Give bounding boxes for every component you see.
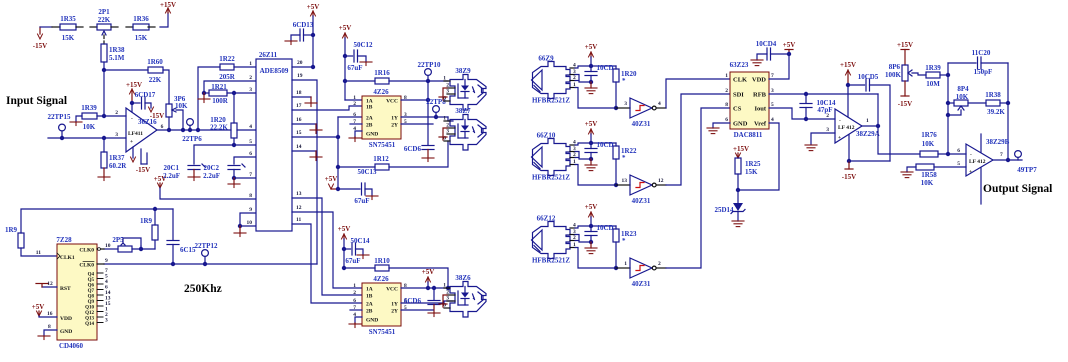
IC U2 4Z26 SN75451 (top)	[362, 88, 401, 149]
svg-text:Iout: Iout	[754, 106, 766, 113]
svg-text:3: 3	[115, 132, 118, 138]
svg-text:+5V: +5V	[783, 41, 796, 49]
resistor 1R23 (pullup)	[613, 226, 637, 268]
svg-text:+5V: +5V	[154, 175, 167, 183]
svg-text:1R25: 1R25	[745, 160, 761, 168]
fiber receiver 66Z10 HFBR2521Z	[532, 132, 577, 182]
svg-text:1R9: 1R9	[140, 217, 153, 225]
svg-text:67uF: 67uF	[345, 257, 360, 265]
svg-text:4: 4	[658, 101, 661, 107]
zener diode 25D14	[714, 190, 745, 221]
svg-text:1B: 1B	[366, 294, 373, 300]
power +5V (pin 20 rail)	[307, 3, 320, 67]
wire pin3 to ground	[811, 133, 835, 144]
svg-text:-15V: -15V	[898, 100, 912, 108]
capacitor 10CD4	[756, 40, 789, 60]
svg-text:1R9: 1R9	[5, 226, 18, 234]
capacitor 6C15	[167, 209, 196, 264]
test point 22TP15	[48, 113, 71, 138]
wire pin2 row	[97, 115, 126, 117]
capacitor 20C2 2.2uF	[203, 164, 245, 180]
wire output to 1R76	[878, 126, 920, 154]
wire	[940, 74, 948, 76]
svg-text:205R: 205R	[219, 73, 236, 81]
svg-text:1: 1	[249, 61, 252, 67]
svg-text:19: 19	[297, 73, 303, 79]
wire pin4 row	[237, 129, 256, 131]
svg-text:Q8: Q8	[88, 295, 95, 300]
junction	[343, 54, 347, 58]
test point 22TP8	[426, 98, 446, 117]
potentiometer 8P4 10K	[948, 85, 969, 115]
svg-text:67uF: 67uF	[347, 64, 362, 72]
svg-text:CD4060: CD4060	[59, 342, 84, 350]
svg-text:2: 2	[115, 110, 118, 116]
svg-text:5.1M: 5.1M	[109, 54, 125, 62]
svg-text:CLK0: CLK0	[79, 263, 94, 269]
svg-text:10M: 10M	[926, 80, 940, 88]
svg-text:10K: 10K	[83, 123, 96, 131]
test point 22TP12	[195, 242, 218, 264]
svg-text:3: 3	[446, 296, 449, 302]
svg-text:1R38: 1R38	[985, 91, 1001, 99]
svg-text:CLK: CLK	[733, 77, 747, 84]
wire VCC row	[401, 99, 428, 101]
power +5V (50C13 node)	[325, 175, 338, 189]
wire VCC riser to 6CD6	[427, 81, 429, 145]
svg-text:11: 11	[296, 217, 301, 223]
svg-text:8: 8	[725, 102, 728, 108]
inverter 40Z31 (middle)	[616, 175, 666, 205]
svg-text:2: 2	[658, 261, 661, 267]
pins 1/5 stubs	[141, 149, 147, 164]
svg-text:LF 412: LF 412	[838, 125, 855, 131]
junction	[342, 247, 346, 251]
resistor 1R16	[374, 69, 390, 84]
svg-text:11C20: 11C20	[972, 49, 991, 57]
wire pin4	[848, 135, 850, 161]
wire pins 2,3 to cap node	[575, 75, 591, 83]
capacitor 6CD17	[132, 91, 156, 109]
wire feedback riser B	[1007, 63, 1009, 160]
svg-text:SN75451: SN75451	[369, 141, 396, 149]
svg-text:50C12: 50C12	[353, 41, 373, 49]
wire	[938, 153, 966, 155]
svg-text:+15V: +15V	[160, 1, 176, 9]
ground (66Z12 cap)	[585, 242, 597, 254]
resistor 1R37 60.2R	[101, 152, 127, 170]
svg-text:RFB: RFB	[753, 92, 767, 99]
test point 49TP7	[1015, 151, 1038, 174]
svg-text:+5V: +5V	[338, 225, 351, 233]
junction	[589, 64, 593, 68]
svg-text:12: 12	[658, 178, 664, 184]
svg-text:Q4: Q4	[88, 273, 95, 278]
power +5V (DAC VDD)	[783, 41, 796, 54]
svg-text:13: 13	[622, 178, 628, 184]
optocoupler transmitter 38Z6	[443, 274, 486, 317]
svg-text:15K: 15K	[745, 168, 758, 176]
svg-text:HFBR2521Z: HFBR2521Z	[532, 174, 570, 182]
wire pin8 stub	[847, 85, 849, 117]
pin 9 stub	[97, 258, 108, 264]
svg-text:1: 1	[443, 116, 446, 122]
svg-text:CLK0: CLK0	[79, 248, 94, 254]
svg-text:40Z31: 40Z31	[632, 197, 651, 205]
svg-text:4: 4	[249, 124, 252, 130]
ground (50C14)	[357, 255, 369, 259]
svg-text:1: 1	[866, 118, 869, 124]
power +15V (op-amp A)	[840, 61, 856, 85]
junction	[946, 113, 950, 117]
svg-text:2: 2	[249, 75, 252, 81]
svg-text:Q6: Q6	[88, 284, 95, 289]
pin numbers U5	[725, 73, 774, 123]
pin 4 stub and -15V	[131, 147, 151, 174]
op-amp U1 36Z16 LF411	[115, 108, 163, 152]
wire pins 2,3 to cap node	[575, 235, 591, 243]
test point 22TP10	[418, 61, 441, 81]
svg-text:3: 3	[826, 127, 829, 133]
svg-text:RST: RST	[60, 286, 71, 292]
wire (1R39 to ground)	[76, 116, 82, 122]
op-amp U6 38Z29A LF412	[826, 109, 879, 143]
resistor 1R22 205R	[219, 55, 236, 81]
wire pin18 stub	[292, 97, 311, 103]
junction	[446, 286, 450, 290]
svg-text:1: 1	[624, 261, 627, 267]
svg-text:22TP10: 22TP10	[418, 61, 441, 69]
power -15V (op-amp A)	[842, 161, 856, 181]
optocoupler transmitter 38Z9	[443, 67, 486, 110]
junction	[139, 247, 143, 251]
svg-text:SN75451: SN75451	[369, 328, 396, 336]
junction	[196, 128, 200, 132]
resistor 1R22 (pullup)	[613, 143, 637, 185]
svg-text:150pF: 150pF	[974, 68, 993, 76]
resistor 1R38 5.1M	[101, 44, 125, 62]
svg-text:6: 6	[249, 151, 252, 157]
wire output B	[993, 159, 1022, 161]
svg-text:+15V: +15V	[733, 145, 749, 153]
svg-text:3: 3	[105, 318, 108, 324]
junction	[1006, 158, 1010, 162]
svg-text:9: 9	[105, 258, 108, 264]
svg-text:10CD4: 10CD4	[756, 40, 777, 48]
svg-text:VDD: VDD	[752, 77, 766, 84]
junction	[946, 152, 950, 156]
svg-text:1R10: 1R10	[374, 257, 390, 265]
svg-text:Q10: Q10	[85, 306, 94, 311]
wire 2B stub	[350, 123, 362, 125]
junction	[804, 92, 808, 96]
wire	[103, 138, 105, 152]
capacitor 11C20 150pF	[948, 49, 1008, 76]
power +15V (ref)	[733, 145, 749, 158]
svg-text:8: 8	[48, 324, 51, 330]
svg-text:10CD: 10CD	[596, 64, 613, 72]
wire VDD riser	[769, 54, 789, 79]
IC U3 7Z28 CD4060	[56, 236, 97, 350]
svg-text:6: 6	[725, 117, 728, 123]
wire divider riser	[233, 93, 235, 123]
junction	[946, 73, 950, 77]
junction	[787, 52, 791, 56]
svg-text:6CD6: 6CD6	[404, 145, 422, 153]
wire	[389, 80, 448, 82]
svg-text:6: 6	[353, 298, 356, 304]
svg-text:Q13: Q13	[85, 317, 94, 322]
ground (6CD6 bottom)	[428, 313, 440, 317]
svg-text:60.2R: 60.2R	[109, 162, 127, 170]
svg-text:26Z11: 26Z11	[259, 51, 278, 59]
junction	[343, 79, 347, 83]
svg-text:+: +	[969, 169, 972, 175]
junction	[311, 33, 315, 37]
ground (10CD4)	[751, 60, 763, 66]
wire rail	[575, 66, 616, 68]
ground (6CD6)	[422, 158, 434, 162]
svg-text:HFBR2521Z: HFBR2521Z	[532, 97, 570, 105]
resistor 1R39 10M	[925, 64, 941, 88]
IC U4 4Z26 SN75451 (bottom)	[362, 275, 401, 336]
ground (pins 9,10)	[234, 226, 246, 237]
svg-text:+5V: +5V	[585, 203, 598, 211]
svg-text:10CD: 10CD	[596, 224, 613, 232]
svg-text:1: 1	[353, 283, 356, 289]
svg-text:*: *	[622, 77, 626, 85]
wire	[204, 92, 209, 94]
svg-text:38Z29B: 38Z29B	[986, 138, 1010, 146]
svg-text:2A: 2A	[366, 116, 373, 122]
svg-text:+5V: +5V	[325, 175, 338, 183]
wire VCC row	[401, 287, 448, 289]
svg-text:6CD6: 6CD6	[404, 297, 422, 305]
junction	[311, 65, 315, 69]
svg-text:2Y: 2Y	[391, 309, 398, 315]
wire pins 2,3 to cap node	[575, 152, 591, 160]
svg-text:+5V: +5V	[585, 43, 598, 51]
svg-text:22TP15: 22TP15	[48, 113, 71, 121]
svg-text:1R37: 1R37	[109, 154, 125, 162]
svg-text:DAC8811: DAC8811	[734, 131, 763, 139]
ground (U4 GND)	[349, 324, 361, 328]
junction	[60, 136, 64, 140]
power +5V (66Z10)	[585, 120, 598, 143]
power +15V (8P6 top)	[897, 41, 913, 65]
capacitor 10CD (66Z9)	[585, 64, 614, 82]
wire (node to pin2 rail)	[103, 70, 105, 116]
wire	[233, 138, 235, 145]
wire	[103, 168, 105, 177]
junction	[153, 207, 157, 211]
wire 2Y row	[401, 123, 433, 125]
svg-text:Vref: Vref	[754, 121, 767, 128]
svg-text:39.2K: 39.2K	[987, 108, 1005, 116]
resistor 1R76 10K	[920, 131, 938, 157]
svg-text:2B: 2B	[366, 123, 373, 129]
wire 1R10 row	[344, 268, 448, 288]
svg-text:LF 412: LF 412	[969, 159, 986, 165]
svg-text:1R60: 1R60	[147, 58, 163, 66]
svg-text:8: 8	[249, 193, 252, 199]
svg-text:1R21: 1R21	[211, 83, 227, 91]
capacitor 6CD13	[291, 21, 314, 41]
wire pin17 to 1B	[292, 106, 362, 110]
wire pin7 row	[234, 177, 256, 179]
svg-text:-: -	[970, 152, 972, 158]
svg-text:6: 6	[161, 124, 164, 130]
power +5V (50C14 rail)	[338, 225, 351, 268]
fiber receiver 66Z9 HFBR2521Z	[532, 55, 577, 105]
svg-text:67uF: 67uF	[354, 197, 369, 205]
svg-text:1Y: 1Y	[391, 302, 398, 308]
svg-text:VDD: VDD	[60, 316, 72, 322]
wire pin16 stub	[292, 124, 316, 130]
capacitor 6CD6	[404, 145, 434, 158]
svg-text:5: 5	[957, 161, 960, 167]
ground (50C12)	[360, 62, 372, 66]
svg-text:GND: GND	[733, 121, 748, 128]
svg-text:22.2K: 22.2K	[210, 124, 228, 132]
svg-text:1R12: 1R12	[373, 155, 389, 163]
junction	[232, 143, 236, 147]
optocoupler transmitter 38Z7	[443, 107, 486, 150]
svg-text:1: 1	[725, 73, 728, 79]
wire RFB feedback rail	[769, 93, 878, 95]
svg-text:1R22: 1R22	[219, 55, 235, 63]
svg-text:CS: CS	[733, 106, 742, 113]
svg-text:15: 15	[296, 130, 302, 136]
svg-text:3: 3	[249, 87, 252, 93]
resistor 1R20 (pullup)	[613, 66, 637, 108]
svg-text:1R39: 1R39	[925, 64, 941, 72]
svg-text:SDI: SDI	[733, 92, 744, 99]
ground (1R37)	[98, 177, 110, 181]
power +5V (VDD)	[32, 303, 57, 317]
junction	[946, 101, 950, 105]
wire pin20	[292, 66, 313, 68]
svg-text:16: 16	[47, 311, 53, 317]
wire pin3 row	[48, 137, 126, 139]
svg-text:Input Signal: Input Signal	[6, 95, 67, 107]
svg-text:+15V: +15V	[126, 81, 142, 89]
svg-text:16: 16	[296, 117, 302, 123]
pin numbers U2	[353, 95, 407, 132]
svg-text:1R76: 1R76	[921, 131, 937, 139]
wire pin13 riser to 1B bottom	[292, 198, 362, 295]
svg-text:63Z23: 63Z23	[730, 61, 749, 69]
fiber receiver 66Z12 HFBR2521Z	[532, 215, 577, 265]
resistor 1R12	[373, 155, 389, 170]
svg-text:50C14: 50C14	[350, 237, 370, 245]
resistor 1R25 15K	[735, 158, 761, 190]
power +5V (66Z12)	[585, 203, 598, 226]
ground (RST)	[36, 284, 57, 288]
junction	[804, 117, 808, 121]
ground (66Z9 cap)	[585, 82, 597, 94]
junction	[167, 128, 171, 132]
ground (66Z10 cap)	[585, 159, 597, 171]
svg-text:1Y: 1Y	[391, 116, 398, 122]
junction node A1	[102, 68, 106, 72]
svg-text:14: 14	[296, 144, 302, 150]
wire pin5 row	[234, 144, 256, 146]
wire pin1 to inverter	[575, 248, 616, 269]
ground (50C13)	[366, 196, 378, 200]
svg-text:Q5: Q5	[88, 278, 95, 283]
svg-text:7: 7	[249, 172, 252, 178]
svg-text:*: *	[622, 237, 626, 245]
wire inverter to DAC CLK	[666, 79, 730, 108]
svg-text:6: 6	[957, 148, 960, 154]
junction	[203, 262, 207, 266]
junction	[238, 224, 242, 228]
svg-text:47pF: 47pF	[817, 106, 832, 114]
ground (1R21 left)	[198, 93, 210, 103]
wire 1Y row	[401, 301, 453, 303]
wire	[111, 26, 133, 28]
svg-text:LF411: LF411	[128, 131, 143, 137]
power -15V (8P6 bottom)	[898, 81, 912, 108]
wire pin1 row	[234, 66, 256, 68]
wire feedback riser	[198, 67, 220, 130]
svg-text:4Z26: 4Z26	[373, 275, 389, 283]
svg-text:2: 2	[826, 113, 829, 119]
svg-text:7: 7	[771, 73, 774, 79]
resistor 1R20 22.2K	[210, 116, 237, 138]
svg-text:CLK1: CLK1	[60, 255, 75, 261]
junction	[589, 80, 593, 84]
Q pin numbers	[105, 268, 111, 324]
ground (pin18)	[305, 103, 317, 107]
potentiometer 2P5	[112, 236, 141, 252]
svg-text:17: 17	[296, 103, 302, 109]
svg-text:+: +	[838, 135, 841, 141]
inverter 40Z31 (bottom)	[616, 258, 666, 288]
wire GND hook	[355, 131, 362, 138]
svg-text:10: 10	[105, 243, 111, 249]
svg-text:2P1: 2P1	[98, 8, 110, 16]
wire	[345, 80, 375, 82]
svg-text:100R: 100R	[212, 97, 229, 105]
junction	[589, 141, 593, 145]
svg-text:VCC: VCC	[386, 287, 398, 293]
svg-text:+: +	[130, 139, 133, 145]
wire 1Y row	[401, 117, 453, 121]
svg-text:22TP12: 22TP12	[195, 242, 218, 250]
power -15V (cap return)	[149, 107, 165, 120]
svg-text:4: 4	[771, 117, 774, 123]
junction	[171, 262, 175, 266]
ground (pin14)	[310, 157, 322, 161]
svg-text:6CD13: 6CD13	[293, 21, 314, 29]
svg-text:GND: GND	[366, 318, 378, 324]
junction	[614, 106, 618, 110]
svg-text:2Y: 2Y	[391, 123, 398, 129]
svg-text:10K: 10K	[175, 102, 188, 110]
svg-text:36Z16: 36Z16	[138, 118, 157, 126]
junction	[102, 114, 106, 118]
ground (zener)	[732, 221, 744, 227]
ground (1R39 left)	[70, 122, 82, 126]
wire output	[862, 125, 878, 127]
svg-text:10K: 10K	[922, 140, 935, 148]
svg-text:6: 6	[353, 112, 356, 118]
wire 2Y row	[401, 309, 433, 311]
svg-text:2: 2	[353, 290, 356, 296]
svg-text:22TP6: 22TP6	[182, 135, 202, 143]
